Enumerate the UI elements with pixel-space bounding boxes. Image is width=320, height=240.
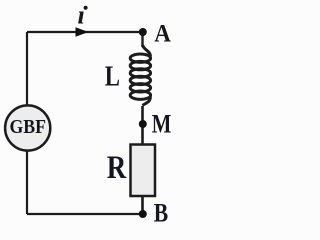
- svg-text:ı: ı: [78, 0, 85, 30]
- wire top: [27, 31, 143, 33]
- node A: [139, 28, 147, 36]
- current arrow: [76, 27, 89, 36]
- wire: resistor to node B: [141, 196, 144, 214]
- resistor R: [131, 145, 156, 197]
- node M: [139, 120, 147, 128]
- node B: [139, 210, 147, 218]
- svg-text:B: B: [154, 199, 168, 228]
- generator GBF: [5, 105, 50, 150]
- svg-text:GBF: GBF: [9, 116, 46, 138]
- wire left upper: [26, 32, 28, 106]
- svg-text:L: L: [105, 61, 120, 93]
- wire bottom: [27, 213, 143, 215]
- inductor L coil: [130, 45, 150, 106]
- svg-text:A: A: [154, 19, 171, 48]
- wire right: node A to coil: [141, 32, 143, 47]
- svg-text:M: M: [152, 110, 172, 139]
- wire: coil to node M to resistor: [141, 106, 144, 144]
- wire left lower: [26, 150, 28, 214]
- svg-text:R: R: [107, 150, 127, 186]
